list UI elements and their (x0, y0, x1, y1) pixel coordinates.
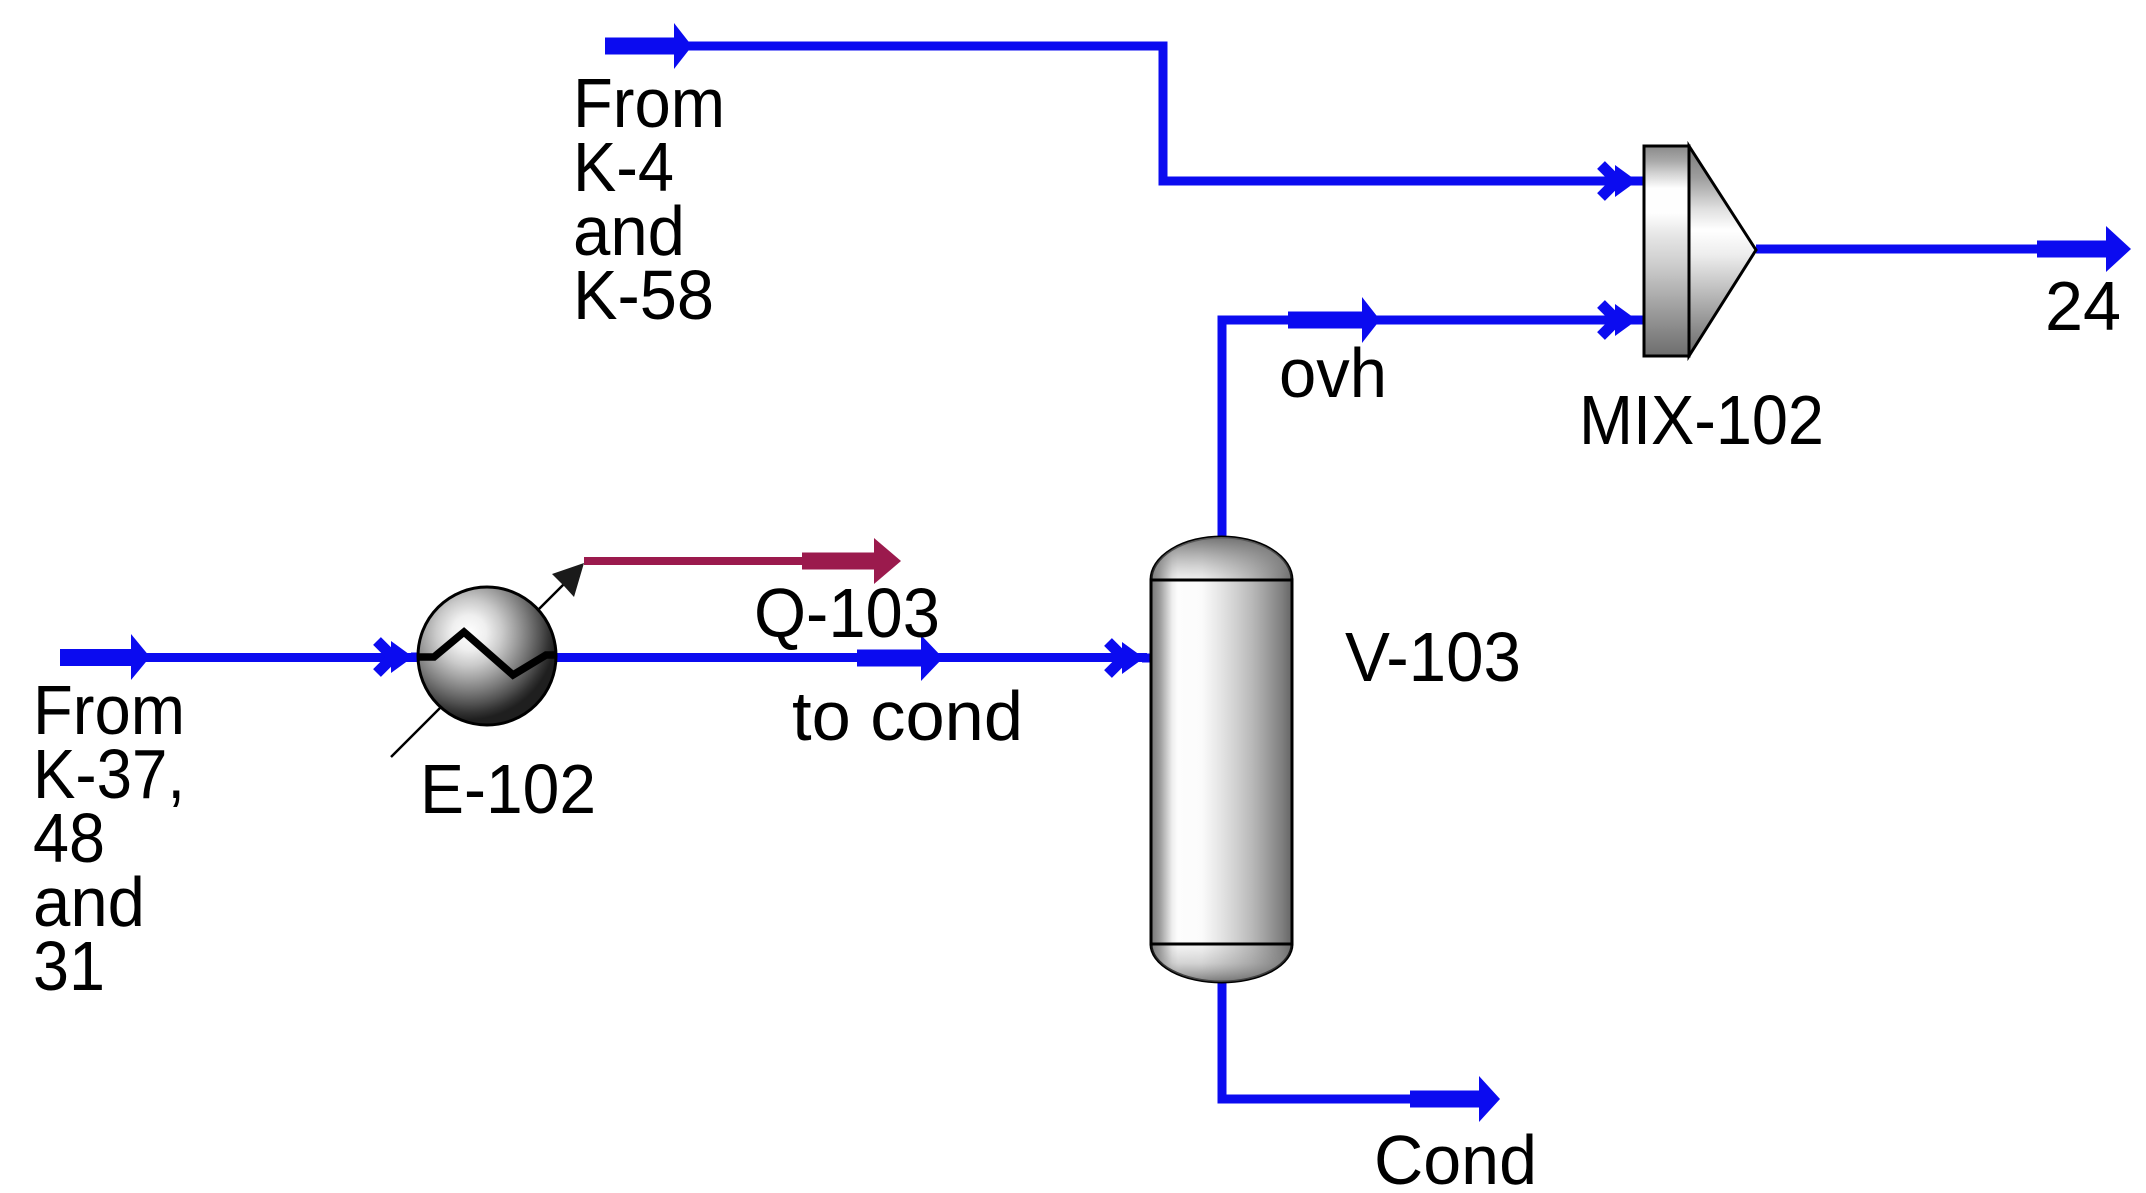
connection arrowhead into E-102 (377, 641, 421, 673)
label: MIX-102 (1579, 381, 1824, 459)
wire: stream From K-4/K-58 to MIX-102 (blue polyline) (605, 46, 1640, 181)
svg-text:ovh: ovh (1279, 334, 1387, 412)
Cond stream thick end arrow (1410, 1076, 1500, 1122)
feed stream start thick arrow (60, 634, 150, 680)
label: ovh (1279, 334, 1387, 412)
mixer MIX-102 plate (1644, 146, 1689, 356)
utility pointer line through E-102 (thin black diagonal) (391, 578, 570, 757)
utility pointer arrowhead (black) (552, 563, 584, 597)
wire: feed stream From K-37/48/31 through E-102 to V-103 (blue line) (60, 653, 1147, 662)
vessel V-103 top dome (1151, 537, 1292, 580)
svg-text:24: 24 (2045, 267, 2121, 345)
E-102 zigzag tube (419, 632, 556, 675)
label: 24 (2045, 267, 2121, 345)
label: V-103 (1345, 618, 1521, 696)
svg-text:Q-103: Q-103 (754, 574, 940, 652)
svg-text:31: 31 (33, 927, 105, 1005)
label: E-102 (420, 750, 596, 828)
connection arrowhead into V-103 (1108, 642, 1152, 674)
wire: Cond stream from V-103 bottom (blue polyline) (1222, 982, 1410, 1099)
label: From K-4 and K-58 (573, 64, 725, 334)
label: Cond (1374, 1121, 1537, 1193)
svg-text:to cond: to cond (792, 677, 1023, 755)
wire: product stream 24 out of MIX-102 (blue line) (1756, 245, 2106, 254)
svg-text:K-58: K-58 (573, 256, 714, 334)
energy stream Q-103 (maroon line with arrow) (584, 538, 901, 584)
stream 24 thick end arrow (2037, 226, 2131, 272)
heat exchanger E-102 (sphere) (418, 587, 556, 725)
svg-text:E-102: E-102 (420, 750, 596, 828)
label: to cond (792, 677, 1023, 755)
vessel V-103 body (1151, 580, 1292, 944)
svg-text:V-103: V-103 (1345, 618, 1521, 696)
wire: ovh stream from V-103 top to MIX-102 (blue polyline) (1222, 320, 1640, 537)
svg-text:MIX-102: MIX-102 (1579, 381, 1824, 459)
connection arrowhead into MIX-102 bottom inlet (1601, 304, 1645, 336)
label: From K-37, 48 and 31 (33, 671, 185, 1005)
svg-text:Cond: Cond (1374, 1121, 1537, 1193)
label: Q-103 (754, 574, 940, 652)
stream start thick arrow (From K-4 and K-58) (605, 23, 692, 69)
vessel V-103 bottom dome (1151, 944, 1292, 982)
connection arrowhead into MIX-102 top inlet (1601, 165, 1645, 197)
mixer MIX-102 cone (1689, 146, 1756, 356)
ovh stream thick arrow (1288, 297, 1380, 343)
to cond stream thick arrow (857, 635, 943, 681)
